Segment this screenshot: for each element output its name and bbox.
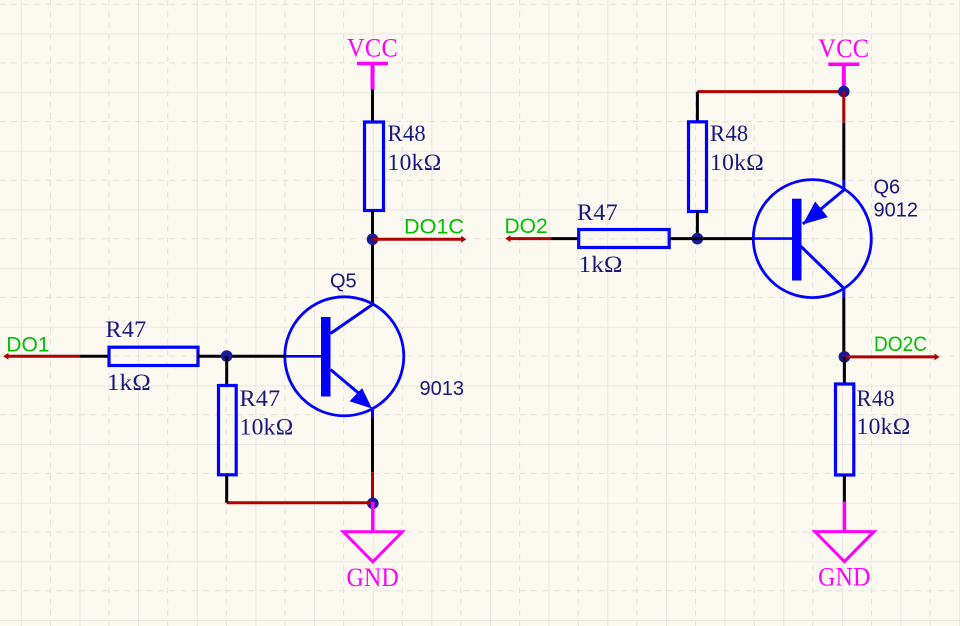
svg-text:VCC: VCC: [347, 34, 398, 63]
svg-text:VCC: VCC: [818, 34, 869, 63]
svg-text:10kΩ: 10kΩ: [857, 414, 911, 439]
svg-text:R47: R47: [240, 386, 281, 411]
svg-text:Q5: Q5: [330, 271, 357, 293]
svg-text:9012: 9012: [874, 200, 919, 222]
svg-text:R47: R47: [106, 317, 147, 342]
svg-text:R48: R48: [388, 121, 427, 146]
svg-text:10kΩ: 10kΩ: [710, 150, 764, 175]
svg-text:1kΩ: 1kΩ: [579, 252, 623, 277]
svg-text:10kΩ: 10kΩ: [240, 415, 294, 440]
svg-text:R48: R48: [857, 386, 896, 411]
svg-text:DO1: DO1: [6, 334, 49, 357]
svg-text:Q6: Q6: [874, 177, 901, 199]
svg-text:1kΩ: 1kΩ: [107, 370, 151, 395]
svg-text:DO2C: DO2C: [874, 333, 927, 356]
svg-text:GND: GND: [818, 563, 871, 592]
svg-text:GND: GND: [347, 563, 400, 592]
svg-text:DO2: DO2: [505, 215, 548, 238]
svg-text:R47: R47: [577, 200, 618, 225]
svg-text:10kΩ: 10kΩ: [388, 150, 442, 175]
svg-text:9013: 9013: [420, 378, 465, 400]
svg-text:R48: R48: [710, 121, 749, 146]
svg-text:DO1C: DO1C: [404, 216, 464, 239]
